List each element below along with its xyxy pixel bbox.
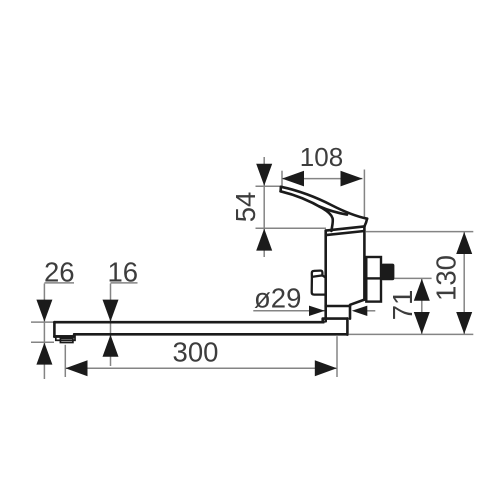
body left edge [324, 231, 327, 322]
svg-text:108: 108 [300, 142, 343, 172]
130 dimension line [463, 232, 465, 335]
svg-text:71: 71 [387, 290, 418, 321]
71 top arrowhead [414, 279, 430, 301]
body right edge [363, 226, 366, 299]
service knob on body left [312, 271, 326, 295]
right bottom extension line (71/130 bottom reference) [349, 333, 473, 335]
26 bottom arrowhead [36, 343, 52, 365]
300 right extension line [336, 336, 338, 377]
lever handle tip edge [279, 187, 282, 192]
300 left extension line [64, 345, 66, 377]
spout bottom edge [74, 333, 347, 336]
16 dimension line [110, 284, 112, 367]
108 left arrowhead [282, 171, 304, 187]
71 dimension line [421, 278, 423, 334]
300 left arrowhead [66, 360, 88, 376]
lever handle inner crease [320, 207, 348, 215]
54 top arrowhead [256, 164, 272, 186]
16 bottom arrowhead [103, 335, 119, 357]
26 dimension line [43, 284, 45, 380]
body seam lower line [326, 231, 365, 235]
16 label underline [111, 282, 138, 284]
300 dimension line [65, 367, 337, 369]
54 bottom extension line [256, 227, 327, 229]
diameter 29 leader line [253, 310, 324, 312]
swivel collar right edge [346, 319, 349, 335]
300 right arrowhead [315, 360, 337, 376]
wall flange mid line [366, 277, 381, 279]
130 top arrowhead [456, 232, 472, 254]
svg-text:300: 300 [173, 336, 219, 367]
108 dimension line [282, 178, 363, 180]
wall connection block (black) [381, 264, 394, 281]
aerator nozzle [60, 338, 73, 342]
svg-text:ø29: ø29 [254, 283, 301, 314]
body shoulder line [326, 305, 350, 308]
diameter 29 left arrowhead [309, 306, 325, 316]
right top extension line (130 top reference) [366, 231, 473, 233]
svg-text:26: 26 [44, 257, 75, 288]
spout left cap bottom [54, 334, 74, 336]
body bottom slant [350, 300, 364, 319]
wall flange [366, 257, 381, 302]
54 dimension line [263, 157, 265, 257]
aerator housing [56, 336, 75, 343]
lever handle rear edge [364, 219, 367, 227]
swivel collar top [323, 319, 348, 323]
26 top arrowhead [36, 300, 52, 322]
71 bottom arrowhead [414, 312, 430, 334]
svg-text:130: 130 [431, 255, 462, 301]
lever handle lower edge and neck [281, 191, 333, 231]
54 bottom arrowhead [256, 229, 272, 251]
body seam upper line [326, 226, 365, 230]
26 bottom extension line [31, 341, 54, 343]
108 left extension line [281, 171, 283, 186]
54 top extension line [256, 185, 283, 187]
108 right extension line (body right edge extended up) [363, 170, 365, 220]
spout left end edge [53, 322, 56, 336]
26 label underline [44, 282, 74, 284]
lever handle upper edge [281, 187, 367, 219]
svg-text:54: 54 [230, 192, 261, 223]
spout top edge [54, 321, 323, 324]
svg-text:16: 16 [108, 257, 139, 288]
71 top extension line [394, 277, 431, 279]
108 right arrowhead [341, 171, 363, 187]
130 bottom arrowhead [456, 312, 472, 334]
diameter 29 right arrowhead [352, 306, 368, 316]
26 top extension line [31, 321, 55, 323]
diameter 29 right tail line [367, 310, 376, 312]
16 top arrowhead [103, 300, 119, 322]
